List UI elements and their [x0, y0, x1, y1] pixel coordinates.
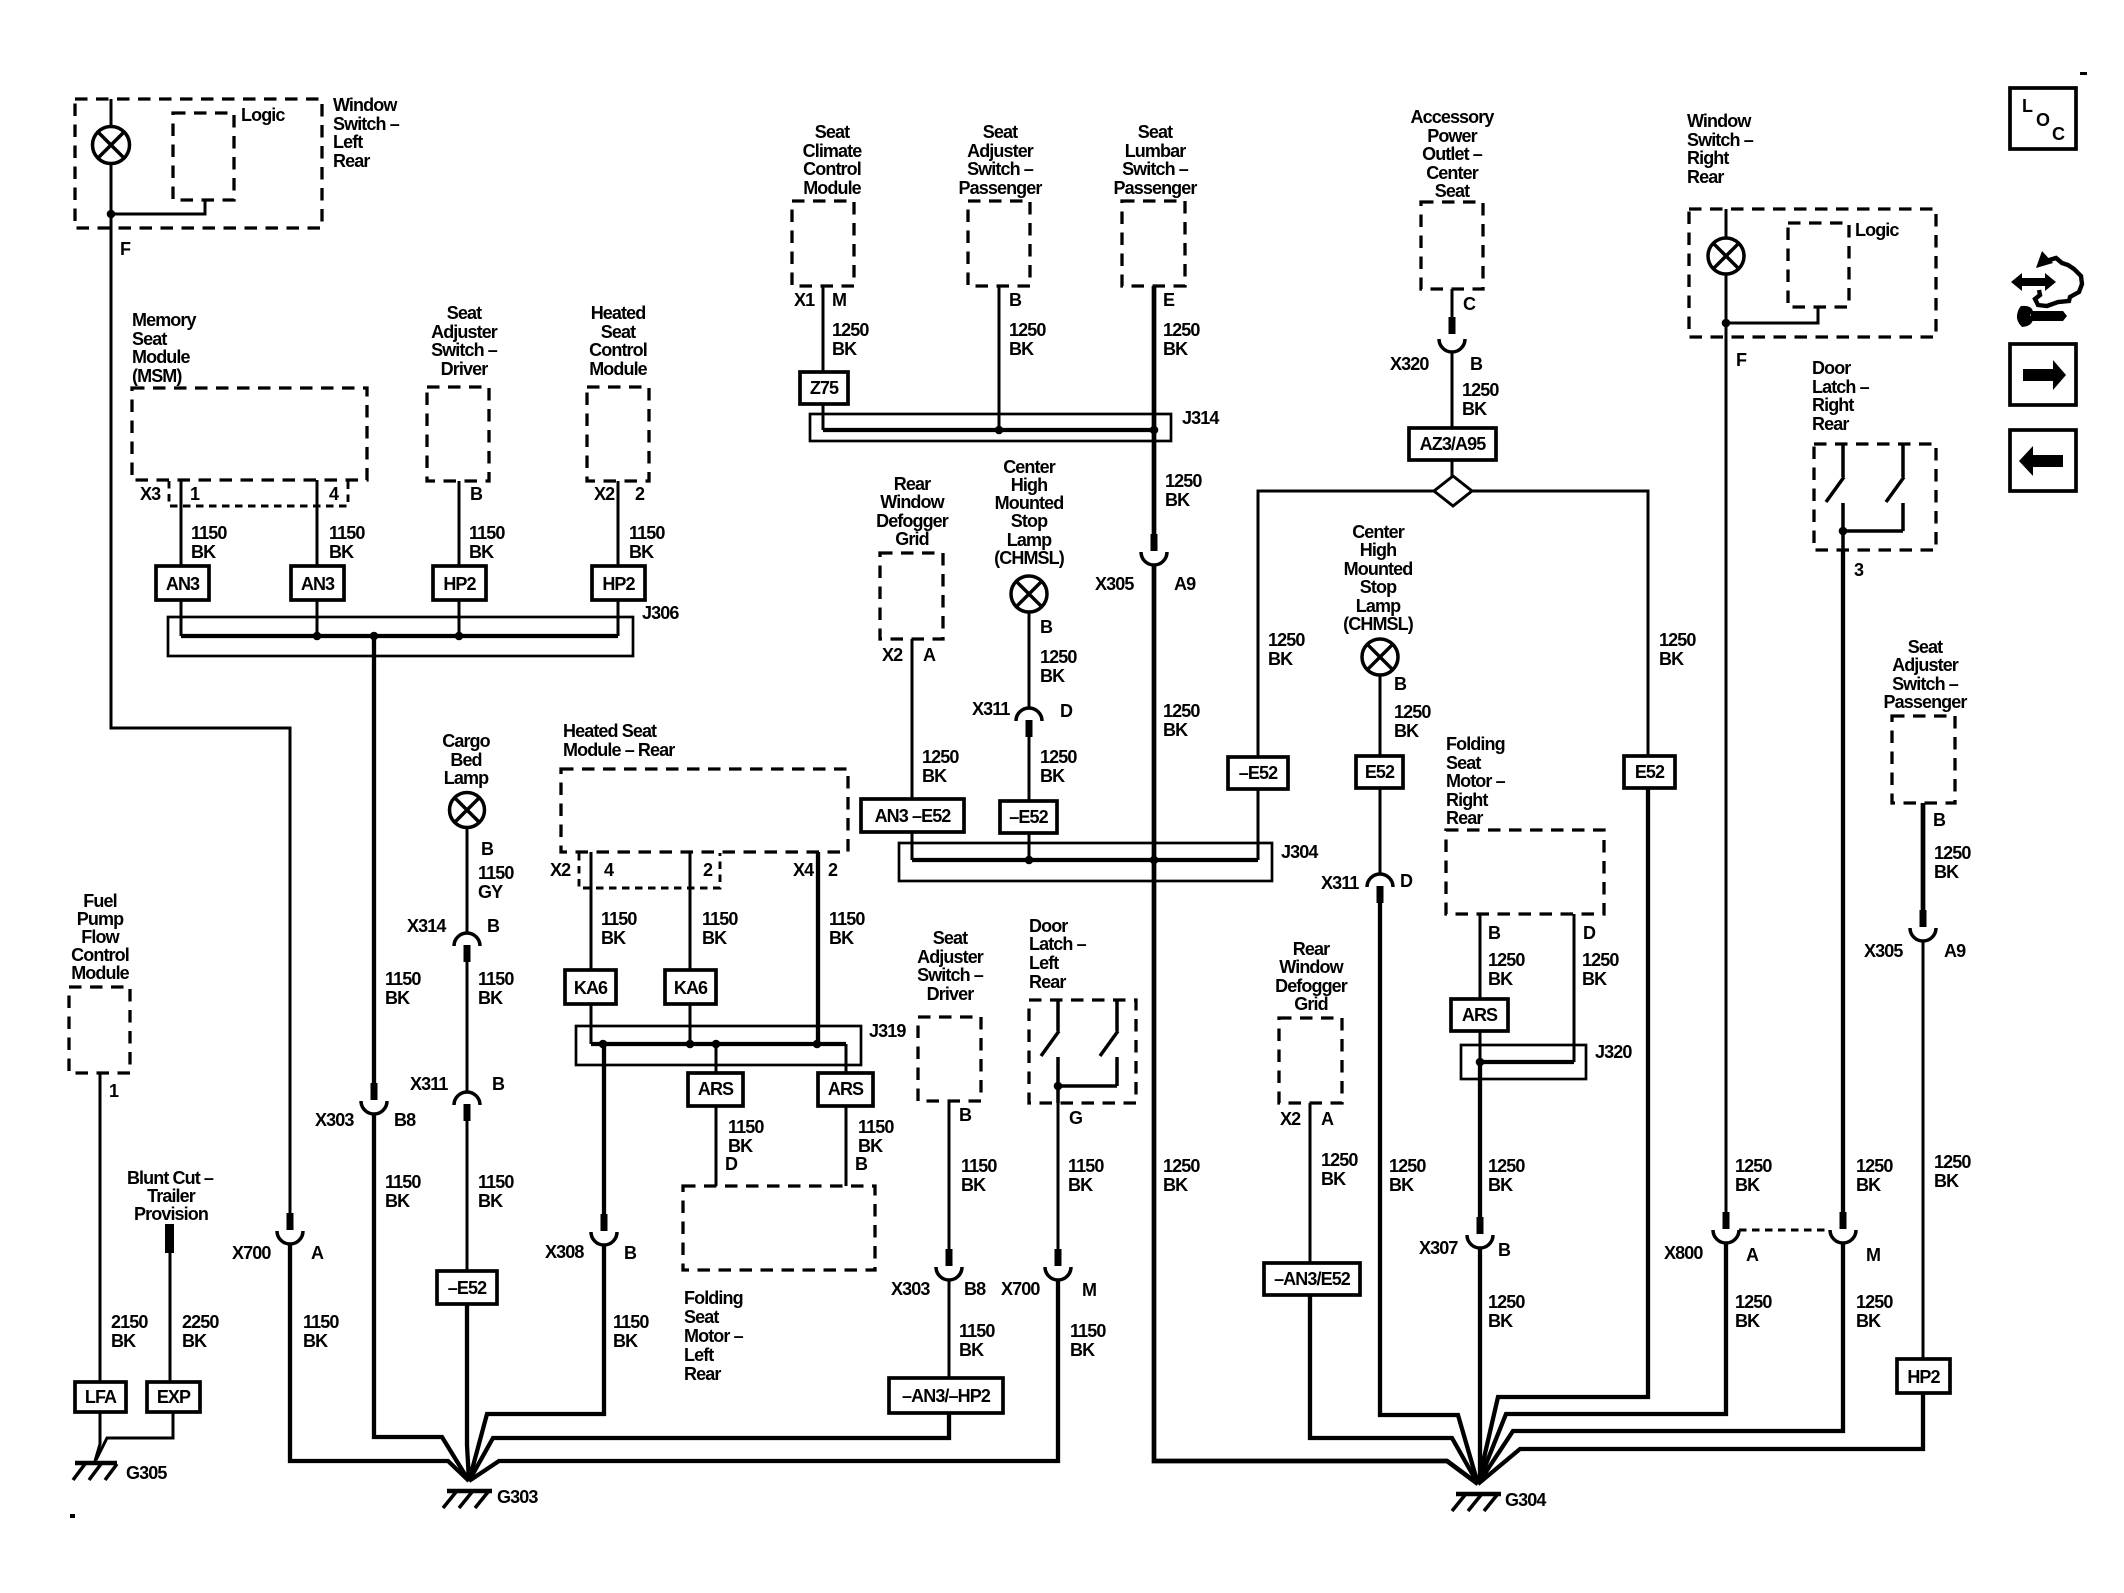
- svg-text:A: A: [1321, 1109, 1334, 1129]
- component Door Latch - Left Rear (dashed box): [1029, 1000, 1136, 1103]
- logic block (left): [173, 113, 234, 200]
- wire F down, right, down to X700 pin A: [111, 214, 290, 1213]
- svg-text:BK: BK: [1040, 766, 1065, 786]
- svg-text:2: 2: [635, 484, 645, 504]
- blunt cut terminal bar: [165, 1224, 174, 1253]
- svg-text:Motor –: Motor –: [1446, 771, 1506, 791]
- ground G303: [443, 1491, 492, 1508]
- wire lamp bottom to junction: [110, 163, 113, 215]
- svg-text:1250: 1250: [1040, 747, 1077, 767]
- svg-text:Stop: Stop: [1360, 577, 1397, 597]
- svg-text:BK: BK: [1163, 720, 1188, 740]
- svg-text:BK: BK: [1462, 399, 1487, 419]
- wire X700-A to ground G303: [290, 1244, 469, 1481]
- splice pack J306: [168, 617, 633, 656]
- svg-text:AN3: AN3: [301, 574, 335, 594]
- wire X800-M to ground G304: [1478, 1243, 1843, 1484]
- svg-text:Heated Seat: Heated Seat: [563, 721, 657, 741]
- svg-text:Seat: Seat: [815, 122, 850, 142]
- svg-text:BK: BK: [1009, 339, 1034, 359]
- lamp CHMSL right: [1362, 639, 1398, 675]
- lamp CHMSL left: [1011, 576, 1047, 612]
- label Fuel Pump Flow Control Module: [71, 891, 130, 983]
- svg-text:BK: BK: [1165, 490, 1190, 510]
- svg-text:Lamp: Lamp: [1007, 530, 1052, 550]
- lamp (window switch right rear): [1708, 238, 1744, 274]
- svg-text:Switch –: Switch –: [917, 965, 984, 985]
- wire X700-M to ground G303: [469, 1280, 1058, 1481]
- wire lamp to E52: [1379, 675, 1382, 756]
- svg-text:–E52: –E52: [1239, 763, 1278, 783]
- svg-text:BK: BK: [1488, 969, 1513, 989]
- svg-text:1250: 1250: [1462, 380, 1499, 400]
- svg-text:BK: BK: [858, 1136, 883, 1156]
- svg-text:Folding: Folding: [1446, 734, 1505, 754]
- label Rear Window Defogger Grid (right): [1275, 939, 1348, 1014]
- splice pack J320: [1461, 1045, 1586, 1079]
- svg-text:BK: BK: [1040, 666, 1065, 686]
- connector strip X2: [579, 853, 720, 888]
- svg-text:Adjuster: Adjuster: [431, 322, 498, 342]
- svg-text:X311: X311: [410, 1074, 448, 1094]
- wire pin G to X700: [1057, 1103, 1060, 1249]
- svg-text:1150: 1150: [303, 1312, 339, 1332]
- svg-text:1250: 1250: [1488, 1156, 1525, 1176]
- svg-text:Bed: Bed: [450, 750, 481, 770]
- wire blunt cut to EXP: [169, 1253, 172, 1382]
- code box AN3 -E52: [861, 799, 964, 832]
- component Seat Climate Control Module (dashed box): [792, 201, 854, 286]
- code box EXP: [147, 1382, 200, 1412]
- wire lamp bottom to junction: [1725, 274, 1728, 323]
- wire HP2 to ground G304: [1478, 1393, 1923, 1484]
- wire pin 1 to LFA: [99, 1073, 102, 1382]
- wire X303 to -AN3/-HP2: [948, 1280, 951, 1378]
- svg-text:BK: BK: [329, 542, 354, 562]
- svg-text:Outlet –: Outlet –: [1422, 144, 1483, 164]
- svg-text:BK: BK: [832, 339, 857, 359]
- wire pin X4-2 to J319: [816, 852, 820, 1044]
- svg-text:ARS: ARS: [828, 1079, 864, 1099]
- svg-text:BK: BK: [1394, 721, 1419, 741]
- ground G304: [1452, 1494, 1501, 1511]
- svg-text:B: B: [1040, 617, 1053, 637]
- svg-text:1250: 1250: [1165, 471, 1202, 491]
- svg-text:O: O: [2036, 110, 2050, 130]
- svg-text:X2: X2: [882, 645, 903, 665]
- svg-text:1250: 1250: [1856, 1292, 1893, 1312]
- svg-text:Memory: Memory: [132, 310, 197, 330]
- svg-text:B: B: [959, 1105, 972, 1125]
- svg-text:X800: X800: [1664, 1243, 1703, 1263]
- svg-text:2: 2: [703, 860, 713, 880]
- label Cargo Bed Lamp: [442, 731, 490, 788]
- svg-text:Rear: Rear: [1812, 414, 1849, 434]
- svg-text:A: A: [1746, 1245, 1759, 1265]
- svg-text:Cargo: Cargo: [442, 731, 490, 751]
- svg-text:1250: 1250: [1163, 701, 1200, 721]
- junction dot: [1722, 319, 1731, 328]
- svg-text:BK: BK: [1068, 1175, 1093, 1195]
- label Blunt Cut - Trailer Provision: [127, 1168, 214, 1224]
- svg-text:X4: X4: [793, 860, 814, 880]
- wire pin B to ARS: [1479, 914, 1482, 999]
- svg-text:Switch –: Switch –: [1892, 674, 1959, 694]
- svg-text:1250: 1250: [1389, 1156, 1426, 1176]
- wire X305 to HP2: [1922, 941, 1925, 1359]
- svg-text:X311: X311: [1321, 873, 1359, 893]
- svg-text:D: D: [725, 1154, 738, 1174]
- label Door Latch - Left Rear: [1029, 916, 1087, 992]
- svg-text:1150: 1150: [858, 1117, 894, 1137]
- svg-text:BK: BK: [182, 1331, 207, 1351]
- svg-text:GY: GY: [478, 882, 503, 902]
- svg-text:Window: Window: [1279, 957, 1344, 977]
- component Seat Adjuster Switch - Passenger right (dashed box): [1892, 716, 1955, 803]
- component Rear Window Defogger Grid right (dashed box): [1279, 1018, 1342, 1103]
- label Seat Adjuster Switch - Passenger: [959, 122, 1043, 198]
- connector X303 pin B8 (driver chain): [936, 1249, 962, 1280]
- svg-text:1250: 1250: [922, 747, 959, 767]
- svg-text:–AN3/–HP2: –AN3/–HP2: [902, 1386, 991, 1406]
- connector X311 pin B (flipped): [454, 1092, 480, 1121]
- wire LFA to ground G305: [95, 1412, 100, 1461]
- wire junction to logic: [111, 199, 205, 214]
- svg-text:B: B: [1470, 354, 1483, 374]
- svg-text:EXP: EXP: [157, 1387, 191, 1407]
- svg-text:Switch –: Switch –: [431, 340, 498, 360]
- junction dots on J319: [599, 1040, 608, 1049]
- code box HP2: [433, 566, 486, 600]
- svg-text:F: F: [1736, 350, 1747, 370]
- svg-text:1150: 1150: [478, 969, 514, 989]
- wire -E52 to J304: [1257, 789, 1260, 860]
- code box ARS (second): [818, 1073, 873, 1106]
- svg-text:(CHMSL): (CHMSL): [1343, 614, 1414, 634]
- wire ARS to folding seat motor pin B: [845, 1106, 848, 1186]
- svg-text:1150: 1150: [385, 969, 421, 989]
- svg-text:Seat: Seat: [1138, 122, 1173, 142]
- svg-text:A9: A9: [1944, 941, 1966, 961]
- svg-text:1250: 1250: [1934, 1152, 1971, 1172]
- wire X800-A to ground G304: [1478, 1243, 1726, 1484]
- svg-text:1150: 1150: [702, 909, 738, 929]
- wire X307 to ground G304: [1478, 1248, 1480, 1484]
- svg-text:X1: X1: [794, 290, 815, 310]
- svg-text:Heated: Heated: [591, 303, 646, 323]
- code box E52 (right branch): [1624, 756, 1675, 788]
- svg-text:Window: Window: [1687, 111, 1752, 131]
- wire junction to logic: [1726, 307, 1818, 323]
- connector strip X3: [169, 481, 348, 506]
- svg-text:X311: X311: [972, 699, 1010, 719]
- svg-text:D: D: [1583, 923, 1596, 943]
- label Center High Mounted Stop Lamp (CHMSL) right: [1343, 522, 1414, 634]
- svg-text:1150: 1150: [959, 1321, 995, 1341]
- svg-text:2: 2: [828, 860, 838, 880]
- lamp (window switch left rear): [93, 127, 130, 164]
- icon left arrow box: [2010, 430, 2076, 491]
- wire X303 to ground G303: [374, 1114, 469, 1481]
- svg-text:Climate: Climate: [803, 141, 863, 161]
- svg-text:Module: Module: [803, 178, 861, 198]
- svg-text:Defogger: Defogger: [876, 511, 949, 531]
- svg-text:Stop: Stop: [1011, 511, 1048, 531]
- svg-text:X700: X700: [232, 1243, 271, 1263]
- code box Z75: [800, 372, 848, 404]
- svg-text:Defogger: Defogger: [1275, 976, 1348, 996]
- wire AN3-E52 to J304: [911, 832, 914, 860]
- code box AN3: [156, 566, 209, 600]
- svg-text:Seat: Seat: [447, 303, 482, 323]
- svg-text:Mounted: Mounted: [1344, 559, 1413, 579]
- component Seat Adjuster Switch - Passenger (dashed box): [968, 201, 1030, 286]
- svg-text:E52: E52: [1365, 762, 1395, 782]
- svg-text:Switch –: Switch –: [1687, 130, 1754, 150]
- connector X800 pin M: [1830, 1212, 1856, 1243]
- svg-text:AN3 –E52: AN3 –E52: [875, 806, 952, 826]
- wire J306 trunk down to X303: [372, 636, 376, 1083]
- component Folding Seat Motor - Right Rear (dashed box): [1446, 830, 1604, 914]
- svg-text:Passenger: Passenger: [1114, 178, 1198, 198]
- svg-text:BK: BK: [702, 928, 727, 948]
- connector X700 pin A: [277, 1213, 303, 1244]
- label Folding Seat Motor - Right Rear: [1446, 734, 1506, 828]
- svg-text:1250: 1250: [1009, 320, 1046, 340]
- connector X311 pin D right (flipped): [1367, 874, 1393, 903]
- svg-text:B: B: [1488, 923, 1501, 943]
- wire X320 to AZ3/A95: [1451, 352, 1454, 428]
- svg-text:BK: BK: [1934, 1171, 1959, 1191]
- code box -E52 (cargo chain): [437, 1271, 497, 1304]
- wire HP2 to J306: [617, 600, 620, 636]
- svg-text:Door: Door: [1029, 916, 1068, 936]
- wire AZ3/A95 to splice diamond: [1451, 460, 1454, 476]
- svg-text:A: A: [923, 645, 936, 665]
- svg-text:Seat: Seat: [1435, 181, 1470, 201]
- svg-text:Switch –: Switch –: [1122, 159, 1189, 179]
- svg-text:BK: BK: [829, 928, 854, 948]
- junction dot: [107, 210, 116, 219]
- svg-text:E52: E52: [1635, 762, 1665, 782]
- wire HP2 to J306: [458, 600, 461, 636]
- wire -E52 to J304: [1028, 833, 1031, 860]
- wire pin B to HP2: [458, 481, 461, 566]
- switch (door latch left rear): [1041, 1000, 1118, 1103]
- wire ARS to J320: [1479, 1031, 1482, 1062]
- component Window Switch - Right Rear (dashed box): [1689, 209, 1936, 337]
- wire AN3 to J306: [180, 600, 183, 636]
- svg-text:1250: 1250: [1659, 630, 1696, 650]
- svg-text:1150: 1150: [1070, 1321, 1106, 1341]
- svg-text:1150: 1150: [829, 909, 865, 929]
- connector link dashes X800: [1739, 1229, 1829, 1232]
- svg-text:Rear: Rear: [1687, 167, 1724, 187]
- svg-text:Grid: Grid: [895, 529, 928, 549]
- code box LFA: [75, 1382, 126, 1412]
- svg-text:(CHMSL): (CHMSL): [994, 548, 1065, 568]
- svg-text:4: 4: [329, 484, 339, 504]
- wire AN3 to J306: [316, 600, 319, 636]
- svg-text:Lamp: Lamp: [1356, 596, 1401, 616]
- wire -AN3/-HP2 to ground G303: [469, 1413, 949, 1481]
- logic block (right): [1788, 223, 1849, 307]
- label Window Switch - Right Rear: [1687, 111, 1754, 187]
- label Rear Window Defogger Grid: [876, 474, 949, 549]
- wire E52 down to ground G304: [1478, 788, 1648, 1484]
- svg-text:Left: Left: [333, 132, 363, 152]
- splice pack J314: [810, 414, 1171, 441]
- wire lamp to X314: [466, 828, 469, 933]
- wire X311 to ground G304: [1380, 903, 1478, 1484]
- svg-text:D: D: [1400, 871, 1413, 891]
- svg-text:Module: Module: [71, 963, 129, 983]
- svg-text:E: E: [1163, 290, 1175, 310]
- connector X305 pin A9 (right): [1910, 910, 1936, 941]
- svg-text:Right: Right: [1812, 395, 1854, 415]
- svg-text:B: B: [1394, 674, 1407, 694]
- svg-text:B8: B8: [964, 1279, 986, 1299]
- splice diamond node: [1434, 476, 1472, 506]
- wire pin B to X305: [1921, 803, 1926, 910]
- svg-text:1250: 1250: [1163, 1156, 1200, 1176]
- splice pack J304: [899, 843, 1272, 881]
- svg-text:4: 4: [604, 860, 614, 880]
- svg-text:(MSM): (MSM): [132, 366, 182, 386]
- svg-text:BK: BK: [1321, 1169, 1346, 1189]
- svg-text:Seat: Seat: [933, 928, 968, 948]
- label Accessory Power Outlet - Center Seat: [1411, 107, 1495, 201]
- svg-text:1150: 1150: [329, 523, 365, 543]
- svg-text:G303: G303: [497, 1487, 538, 1507]
- svg-text:Motor –: Motor –: [684, 1326, 744, 1346]
- svg-text:BK: BK: [613, 1331, 638, 1351]
- connector X303 pin B8: [361, 1083, 387, 1114]
- svg-text:F: F: [120, 239, 131, 259]
- connector X320 pin B: [1439, 317, 1465, 352]
- svg-text:1150: 1150: [613, 1312, 649, 1332]
- svg-text:High: High: [1011, 475, 1047, 495]
- svg-text:BK: BK: [1163, 339, 1188, 359]
- svg-text:1250: 1250: [1488, 1292, 1525, 1312]
- svg-text:BK: BK: [385, 988, 410, 1008]
- svg-text:X308: X308: [545, 1242, 584, 1262]
- svg-text:Switch –: Switch –: [333, 114, 400, 134]
- svg-text:X2: X2: [594, 484, 615, 504]
- svg-text:C: C: [2052, 124, 2065, 144]
- svg-text:Right: Right: [1687, 148, 1729, 168]
- svg-text:B: B: [624, 1243, 637, 1263]
- icon double arrow with outline and wrench: [2011, 251, 2082, 327]
- svg-text:1250: 1250: [1321, 1150, 1358, 1170]
- wire J320 down to X307: [1478, 1062, 1482, 1217]
- svg-text:BK: BK: [1582, 969, 1607, 989]
- svg-text:KA6: KA6: [574, 978, 608, 998]
- svg-text:M: M: [1866, 1245, 1880, 1265]
- icon LOC box: [2010, 88, 2076, 149]
- svg-text:1250: 1250: [1394, 702, 1431, 722]
- svg-text:X3: X3: [140, 484, 161, 504]
- code box -AN3/-HP2: [889, 1378, 1003, 1413]
- svg-text:X307: X307: [1419, 1238, 1458, 1258]
- svg-text:KA6: KA6: [674, 978, 708, 998]
- svg-text:Lamp: Lamp: [444, 768, 489, 788]
- code box HP2 (second): [592, 566, 645, 600]
- svg-text:X700: X700: [1001, 1279, 1040, 1299]
- svg-text:J320: J320: [1595, 1042, 1632, 1062]
- wire F down to X800 pin A: [1725, 323, 1728, 1212]
- wire pin E to J314 (trunk): [1152, 286, 1157, 430]
- svg-text:BK: BK: [1856, 1311, 1881, 1331]
- code box -E52 (CHMSL left): [1000, 801, 1057, 833]
- svg-text:Center: Center: [1352, 522, 1405, 542]
- connector X311 pin D (flipped): [1016, 708, 1042, 737]
- label Seat Adjuster Switch - Driver (bottom): [917, 928, 984, 1004]
- label Folding Seat Motor - Left Rear: [684, 1288, 744, 1384]
- wire MSM pin 1 to AN3: [180, 480, 183, 566]
- svg-text:Grid: Grid: [1294, 994, 1327, 1014]
- wire X314 to X311: [466, 962, 469, 1092]
- svg-text:BK: BK: [1389, 1175, 1414, 1195]
- svg-text:Left: Left: [684, 1345, 714, 1365]
- svg-text:X303: X303: [315, 1110, 354, 1130]
- svg-text:X2: X2: [1280, 1109, 1301, 1129]
- code box E52 (CHMSL right): [1356, 756, 1403, 788]
- component Folding Seat Motor - Left Rear (dashed box): [683, 1186, 875, 1270]
- svg-text:Accessory: Accessory: [1411, 107, 1495, 127]
- svg-text:1250: 1250: [832, 320, 869, 340]
- svg-text:B: B: [1498, 1240, 1511, 1260]
- connector X305 pin A9: [1141, 534, 1167, 565]
- wire -AN3/E52 to ground G304: [1310, 1295, 1478, 1484]
- svg-text:D: D: [1060, 701, 1073, 721]
- svg-text:1150: 1150: [601, 909, 637, 929]
- svg-text:1150: 1150: [191, 523, 227, 543]
- svg-text:BK: BK: [478, 988, 503, 1008]
- svg-text:BK: BK: [469, 542, 494, 562]
- wire Z75 to J314: [822, 404, 825, 430]
- wire lamp top to box top: [1725, 209, 1728, 238]
- svg-text:BK: BK: [303, 1331, 328, 1351]
- svg-text:Control: Control: [589, 340, 647, 360]
- connector X308 pin B: [591, 1214, 617, 1245]
- connector X700 pin M: [1045, 1249, 1071, 1280]
- component Seat Adjuster Switch - Driver (dashed box): [427, 387, 489, 481]
- connector X314 pin B (flipped): [454, 933, 480, 962]
- svg-text:Trailer: Trailer: [147, 1186, 196, 1206]
- svg-text:Seat: Seat: [132, 329, 167, 349]
- svg-text:Center: Center: [1003, 457, 1056, 477]
- svg-text:Logic: Logic: [1855, 220, 1899, 240]
- svg-text:1250: 1250: [1856, 1156, 1893, 1176]
- wire KA6 to J319: [590, 1004, 593, 1044]
- svg-text:Seat: Seat: [601, 322, 636, 342]
- svg-text:BK: BK: [385, 1191, 410, 1211]
- svg-text:BK: BK: [1070, 1340, 1095, 1360]
- wire pin B to J314: [998, 286, 1001, 430]
- wire diamond right branch to E52: [1472, 491, 1648, 756]
- label Heated Seat Module - Rear: [563, 721, 675, 760]
- svg-text:Control: Control: [803, 159, 861, 179]
- wire pin M to Z75: [822, 286, 825, 372]
- svg-text:–E52: –E52: [448, 1278, 487, 1298]
- svg-text:X314: X314: [407, 916, 446, 936]
- svg-text:BK: BK: [1735, 1311, 1760, 1331]
- component Rear Window Defogger Grid left (dashed box): [880, 553, 943, 639]
- svg-text:B: B: [470, 484, 483, 504]
- wire diamond left branch to -E52: [1258, 491, 1434, 757]
- svg-text:1150: 1150: [478, 1172, 514, 1192]
